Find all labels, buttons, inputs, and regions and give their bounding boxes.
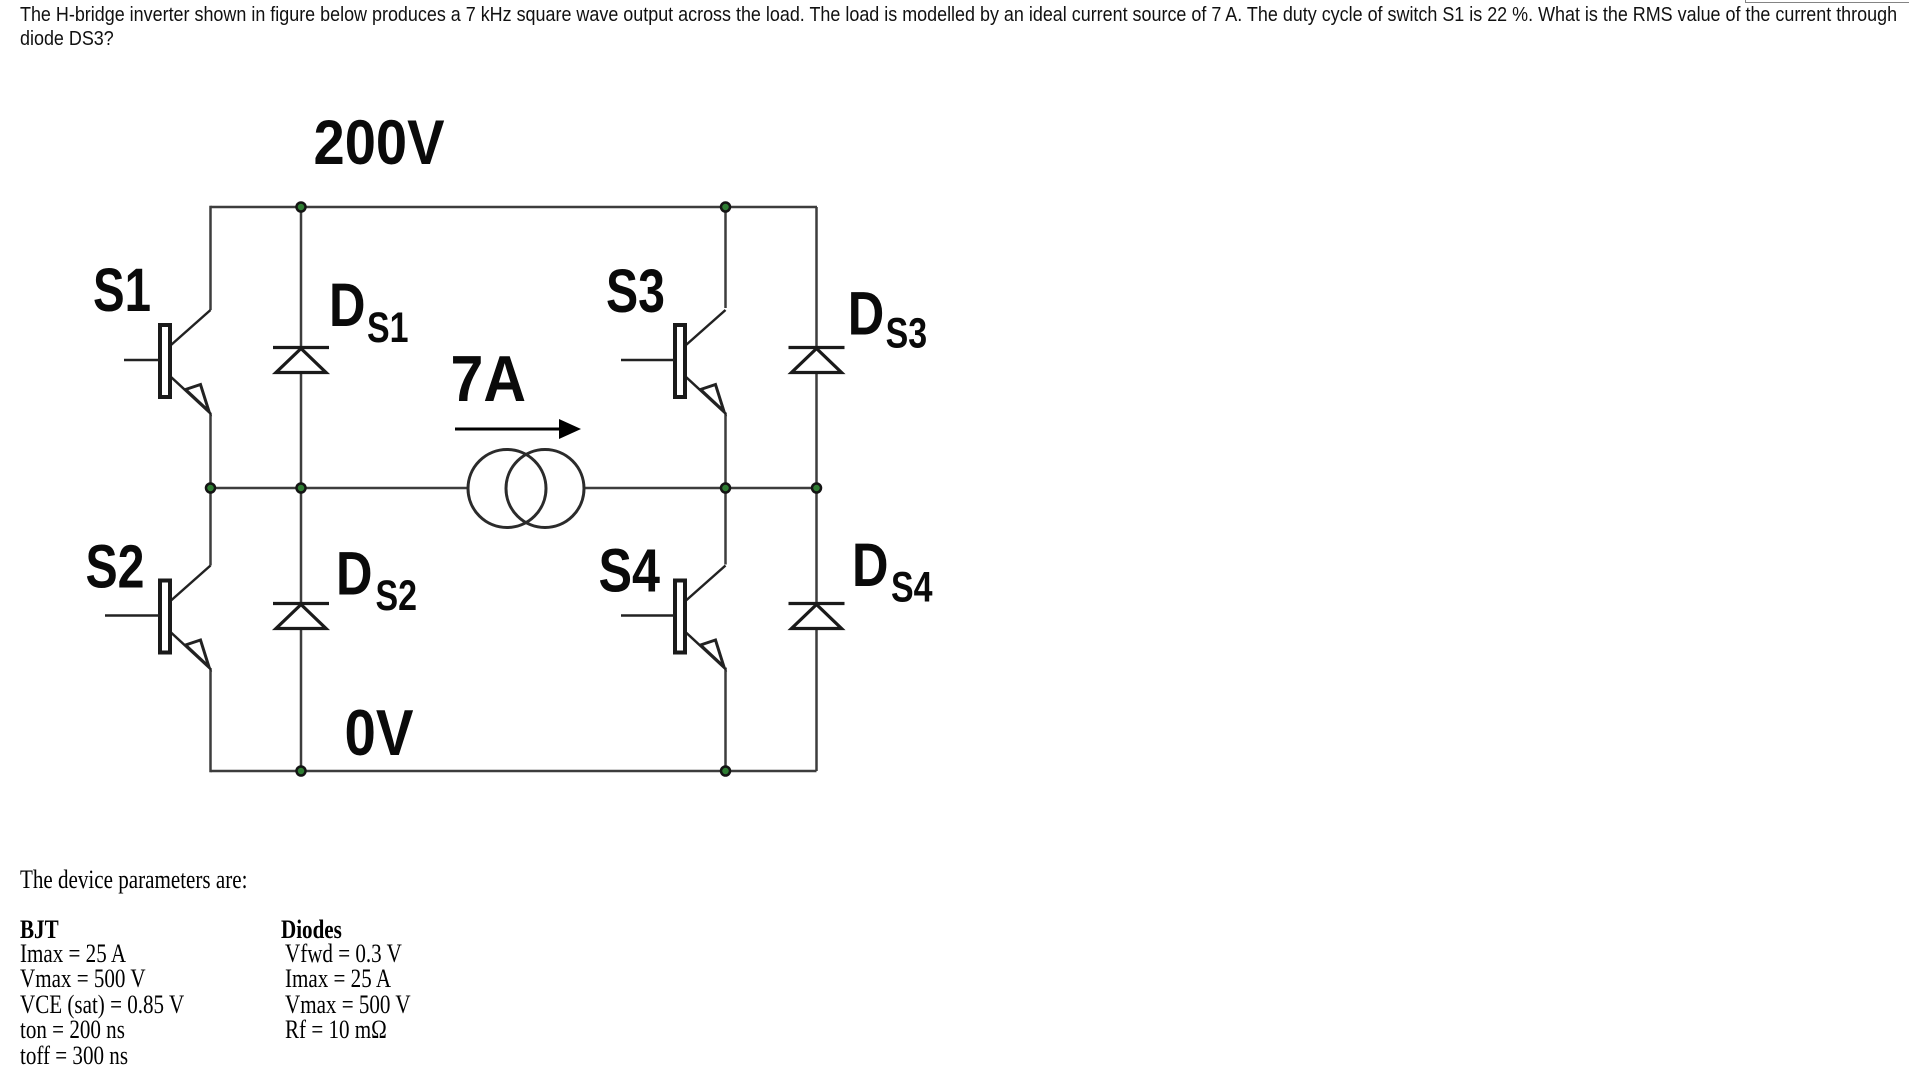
svg-text:7A: 7A — [451, 342, 527, 415]
diode DS1 — [273, 348, 329, 373]
svg-text:S3: S3 — [606, 257, 665, 325]
svg-text:D: D — [848, 280, 885, 348]
device parameters text — [20, 867, 247, 893]
svg-text:200V: 200V — [314, 108, 445, 178]
svg-text:S1: S1 — [93, 256, 151, 324]
svg-text:D: D — [852, 531, 889, 599]
wire: DS4 branch — [815, 488, 818, 771]
svg-text:D: D — [329, 271, 366, 339]
question text — [20, 4, 1897, 51]
svg-text:D: D — [336, 540, 373, 608]
diode DS3 — [789, 348, 845, 373]
wire: right rail segments — [724, 206, 727, 308]
current source (load) — [468, 450, 546, 528]
svg-text:S4: S4 — [891, 564, 933, 612]
diode DS2 — [273, 604, 329, 629]
svg-text:S2: S2 — [376, 572, 418, 620]
svg-text:S3: S3 — [886, 310, 928, 358]
wire: bottom rail 0V — [211, 770, 817, 773]
junction node dots — [297, 203, 306, 212]
transistor S3 — [675, 310, 726, 414]
current direction arrow — [455, 428, 563, 431]
wire: DS2 branch — [300, 488, 303, 771]
wire: DS3 branch — [815, 207, 818, 488]
wire: left rail segments — [209, 206, 212, 310]
svg-text:S2: S2 — [86, 533, 145, 601]
diode DS4 — [789, 604, 845, 629]
wire: mid rail (load) — [211, 487, 818, 490]
transistor S1 — [160, 310, 211, 414]
wire: top rail 200V — [211, 206, 818, 209]
wire: DS1 branch — [300, 207, 303, 488]
svg-text:0V: 0V — [345, 696, 414, 769]
transistor S4 — [675, 566, 726, 670]
svg-text:S4: S4 — [599, 537, 661, 605]
svg-text:S1: S1 — [367, 304, 409, 352]
transistor S2 — [160, 566, 211, 670]
grey corner box top right — [1745, 0, 1909, 3]
